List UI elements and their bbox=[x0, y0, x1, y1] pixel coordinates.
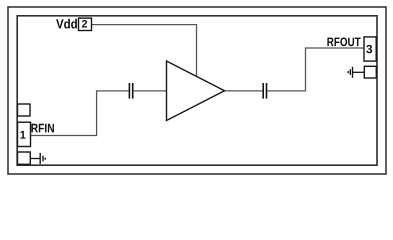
pad top-left bbox=[18, 104, 31, 116]
pad ground left bbox=[18, 152, 31, 164]
wire RFOUT net bbox=[267, 48, 364, 91]
capacitor C1 bbox=[129, 83, 132, 99]
outer package border bbox=[8, 7, 386, 174]
pin 1 box bbox=[18, 122, 31, 146]
inner die border bbox=[17, 16, 377, 165]
wire C1 to amp bbox=[133, 90, 166, 92]
op-amp U1 bbox=[167, 61, 225, 121]
ground right bbox=[348, 67, 352, 78]
wire Vdd net bbox=[92, 25, 197, 77]
wire pad to ground left bbox=[30, 158, 40, 160]
pin 3 box bbox=[364, 37, 376, 61]
capacitor C2 bbox=[263, 83, 266, 99]
label RFIN bbox=[31, 124, 54, 133]
pin 3 number bbox=[366, 45, 372, 53]
pin 1 number bbox=[20, 131, 25, 139]
label RFOUT bbox=[327, 37, 360, 46]
pin 2 box bbox=[79, 18, 92, 30]
pad ground right bbox=[364, 66, 376, 78]
wire RFIN net bbox=[31, 91, 129, 136]
wire pad to ground right bbox=[353, 71, 365, 73]
wire amp to C2 bbox=[225, 90, 263, 92]
pin 2 number bbox=[82, 20, 87, 28]
ground left bbox=[40, 153, 45, 164]
label Vdd bbox=[56, 19, 77, 29]
